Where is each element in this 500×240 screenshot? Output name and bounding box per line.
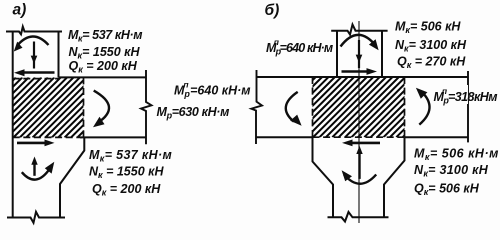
moment arc bottom a <box>22 165 52 179</box>
column left edge a <box>12 32 14 218</box>
bottom line with break a <box>7 212 65 223</box>
axial arrow up (bottom) b <box>358 150 360 179</box>
svg-text:а): а) <box>13 2 27 19</box>
top box left edge b <box>336 31 338 77</box>
top box right edge b <box>381 31 383 77</box>
joint right edge dashed a <box>83 77 85 137</box>
bottom line with break b <box>328 212 389 222</box>
svg-text:б): б) <box>265 2 280 19</box>
beam right end edge b <box>467 71 469 142</box>
hatch top dashed line a <box>13 78 59 80</box>
beam top line a <box>59 76 147 78</box>
joint left edge dashed b <box>312 77 314 137</box>
axial force arrow N down a <box>33 42 35 69</box>
moment arc top b <box>341 35 377 47</box>
beam bottom line a <box>80 136 146 138</box>
left beam break edge b <box>251 70 262 144</box>
moment arc right beam b <box>419 92 429 125</box>
lower column right edge b <box>384 137 405 217</box>
moment arc top a <box>17 36 49 46</box>
column centerline b <box>358 21 360 223</box>
shear arrow left (bottom) b <box>347 142 380 145</box>
shear arrow Q left a <box>22 71 55 74</box>
beam end edge with break a <box>141 70 152 144</box>
shear arrow Q right b <box>342 70 370 73</box>
moment arc left beam b <box>286 92 298 122</box>
lower column left edge b <box>313 137 334 217</box>
column top line with break a <box>6 27 62 35</box>
label M_p^n right b (with white backing over beam end line) <box>432 85 468 104</box>
axial arrow up (bottom) a <box>33 161 35 176</box>
column top line with break b <box>331 25 387 35</box>
beam bottom line right b <box>405 136 469 138</box>
shear arrow right (bottom) a <box>17 142 47 145</box>
moment arc bottom b <box>344 175 376 184</box>
joint bottom dashed b <box>313 136 405 138</box>
svg-text:Mк= 506 кН: Mк= 506 кН <box>395 20 461 36</box>
beam moment arc a <box>94 91 109 123</box>
beam bottom line left b <box>257 136 313 138</box>
lower column right edge with haunch a <box>60 137 84 217</box>
beam top line b <box>257 76 469 78</box>
joint right edge dashed b <box>404 77 406 137</box>
joint bottom dashed line a <box>13 136 82 138</box>
axial force arrow N down b <box>358 40 360 68</box>
column top right edge a <box>58 32 60 78</box>
